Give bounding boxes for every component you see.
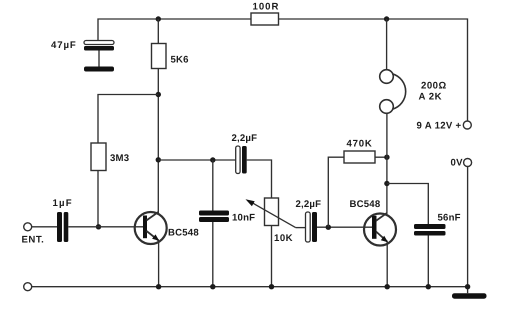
capacitor C 56nF bottom plate — [414, 231, 446, 236]
label 3M3 — [110, 153, 129, 164]
wire 0V to ground — [467, 167, 469, 294]
wire Q2 collector column — [386, 114, 388, 214]
transistor Q1 BC548 body — [135, 212, 167, 244]
resistor 470K — [344, 151, 375, 163]
node rail Q2 emitter — [385, 284, 390, 289]
label 200 ohm — [421, 81, 447, 92]
wire coupling to 2.2uF — [158, 159, 235, 161]
potentiometer 10K body — [265, 198, 279, 226]
transistor Q1 emitter stroke — [147, 231, 160, 241]
label BC548 Q1 — [168, 228, 199, 239]
svg-text:2,2µF: 2,2µF — [232, 133, 258, 144]
label A 2K — [419, 92, 443, 103]
node 5K6 / 3M3 junction — [156, 92, 161, 97]
resistor 3M3 — [91, 143, 106, 171]
wire Q2 emitter to rail — [386, 242, 388, 287]
node top rail / 5K6 junction — [156, 16, 161, 21]
label 1uF — [53, 198, 73, 209]
wire 5K6 to Q1 collector — [157, 69, 159, 214]
wire pot bottom lead — [271, 226, 273, 287]
label 0V — [451, 157, 464, 168]
svg-text:A 2K: A 2K — [419, 92, 443, 103]
node rail 10nF — [210, 284, 215, 289]
capacitor C 47uF positive plate — [84, 41, 114, 45]
capacitor C 1uF left plate — [57, 212, 62, 242]
svg-text:10nF: 10nF — [232, 213, 255, 224]
resistor 100R — [251, 13, 279, 25]
terminal input ENT — [24, 223, 32, 231]
label 2.2uF B — [296, 199, 322, 210]
wire input to 1uF — [32, 226, 57, 228]
wire 470K left lead — [328, 157, 344, 227]
capacitor C 1uF right plate — [64, 212, 69, 242]
terminal supply plus — [463, 121, 471, 129]
wire top rail left segment — [98, 19, 251, 41]
node coupling junction — [156, 157, 161, 162]
capacitor C 2.2uF A negative plate — [242, 146, 247, 174]
node 10nF junction — [210, 157, 215, 162]
wire 470K right lead — [375, 156, 387, 158]
node collector / 56nF junction — [384, 181, 389, 186]
label 9 A 12V plus — [417, 121, 462, 132]
earphone bottom circle — [380, 100, 394, 114]
transistor Q2 BC548 body — [364, 214, 396, 246]
wire 2.2uF to pot top — [247, 160, 272, 198]
capacitor C 10nF top plate — [199, 211, 229, 216]
label 100R — [253, 2, 280, 13]
wire top rail right segment — [279, 19, 468, 121]
label ENT — [22, 235, 45, 246]
capacitor C 2.2uF B positive plate — [306, 212, 311, 242]
wire 10nF bottom lead — [212, 222, 214, 287]
label 5K6 — [171, 55, 189, 66]
wire 56nF bottom lead — [427, 236, 429, 287]
earphone top circle — [380, 70, 394, 84]
svg-text:3M3: 3M3 — [110, 153, 129, 164]
label 47uF — [51, 40, 77, 51]
wire 1uF to Q1 base — [68, 226, 143, 228]
svg-text:0V: 0V — [451, 157, 464, 168]
earphone arc — [392, 74, 405, 109]
node top rail / earphone junction — [384, 16, 389, 21]
wire 3M3 bottom lead — [97, 171, 99, 227]
transistor Q2 collector stroke — [376, 213, 387, 221]
ground bar under 47uF — [84, 67, 114, 72]
label 56nF — [438, 213, 461, 224]
capacitor C 2.2uF B negative plate — [312, 212, 317, 242]
wire 47uF to ground — [98, 51, 100, 67]
terminal 0V — [464, 159, 472, 167]
wire bottom rail — [32, 286, 468, 288]
wire 56nF top lead — [387, 184, 428, 225]
node 470K / collector junction — [384, 155, 389, 160]
wire earphone top lead — [386, 19, 388, 70]
transistor Q2 emitter stroke — [376, 232, 388, 243]
wire Q1 emitter to rail — [158, 241, 160, 287]
wire 5K6 top lead — [157, 19, 159, 44]
transistor Q2 base bar — [372, 216, 377, 239]
svg-text:1µF: 1µF — [53, 198, 73, 209]
node rail 0V — [465, 284, 470, 289]
svg-text:2,2µF: 2,2µF — [296, 199, 322, 210]
svg-text:BC548: BC548 — [168, 228, 199, 239]
svg-text:47µF: 47µF — [51, 40, 77, 51]
svg-text:200Ω: 200Ω — [421, 81, 447, 92]
wire 10nF top lead — [212, 160, 214, 211]
resistor 5K6 — [152, 44, 167, 69]
capacitor C 10nF bottom plate — [199, 217, 229, 222]
node rail Q1 emitter — [156, 284, 161, 289]
transistor Q1 base bar — [143, 216, 147, 239]
svg-text:10K: 10K — [274, 233, 293, 244]
node 3M3 / base junction — [96, 224, 101, 229]
label BC548 Q2 — [350, 199, 381, 210]
svg-text:5K6: 5K6 — [171, 55, 189, 66]
svg-text:ENT.: ENT. — [22, 235, 45, 246]
capacitor C 2.2uF A positive plate — [236, 146, 240, 174]
wire wiper to 2.2uF B — [296, 227, 306, 229]
svg-text:BC548: BC548 — [350, 199, 381, 210]
potentiometer 10K wiper arrow — [246, 199, 296, 227]
node rail pot — [269, 284, 274, 289]
capacitor C 56nF top plate — [414, 224, 446, 229]
label 470K — [347, 138, 373, 149]
svg-text:470K: 470K — [347, 138, 373, 149]
node 470K / base junction — [326, 225, 331, 230]
node rail 56nF — [426, 284, 431, 289]
capacitor C 47uF negative plate — [84, 46, 114, 51]
label 10K — [274, 233, 293, 244]
ground bar bottom right — [452, 293, 487, 299]
terminal bottom left — [24, 283, 32, 291]
wire 3M3 branch horizontal — [98, 95, 158, 144]
wire 2.2uF B to Q2 base — [317, 226, 372, 228]
label 10nF — [232, 213, 255, 224]
svg-text:56nF: 56nF — [438, 213, 461, 224]
svg-text:9 A 12V +: 9 A 12V + — [417, 121, 462, 132]
svg-text:100R: 100R — [253, 2, 280, 13]
label 2.2uF A — [232, 133, 258, 144]
transistor Q1 collector stroke — [147, 212, 159, 220]
